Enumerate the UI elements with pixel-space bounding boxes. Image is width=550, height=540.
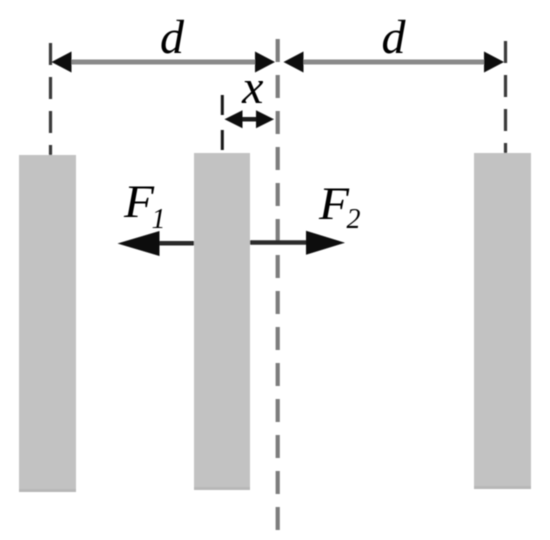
dimension arrow d (right) shaft [292, 60, 496, 65]
dimension arrow d (left) left head [52, 52, 72, 73]
rod middle (gray bar) [194, 153, 250, 490]
force arrow F1 shaft [157, 241, 194, 246]
dimension arrow d (left) shaft [60, 60, 266, 65]
svg-text:2: 2 [347, 204, 361, 235]
dimension arrow x left head [225, 110, 243, 128]
rod right (gray bar) [474, 153, 531, 489]
dashed centerline left rod [49, 43, 52, 155]
rod left (gray bar) [19, 155, 76, 492]
dimension arrow x shaft [232, 117, 266, 122]
dimension arrow d (right) right head [484, 52, 504, 73]
svg-text:d: d [382, 11, 407, 64]
force arrow F2 head [306, 231, 345, 255]
dimension arrow x right head [256, 110, 274, 128]
force arrow F2 shaft [250, 240, 308, 245]
svg-text:F: F [318, 178, 350, 230]
dashed equilibrium axis (center) [276, 39, 280, 530]
force arrow F1 head [118, 231, 160, 256]
dashed tick at middle rod center [221, 95, 224, 153]
svg-text:1: 1 [152, 204, 166, 235]
svg-text:d: d [160, 11, 185, 64]
dimension arrow d (right) left head [284, 52, 304, 73]
svg-text:x: x [241, 61, 263, 114]
svg-text:F: F [123, 176, 155, 228]
dimension arrow d (left) right head [255, 52, 275, 73]
dashed centerline right rod [504, 41, 507, 153]
